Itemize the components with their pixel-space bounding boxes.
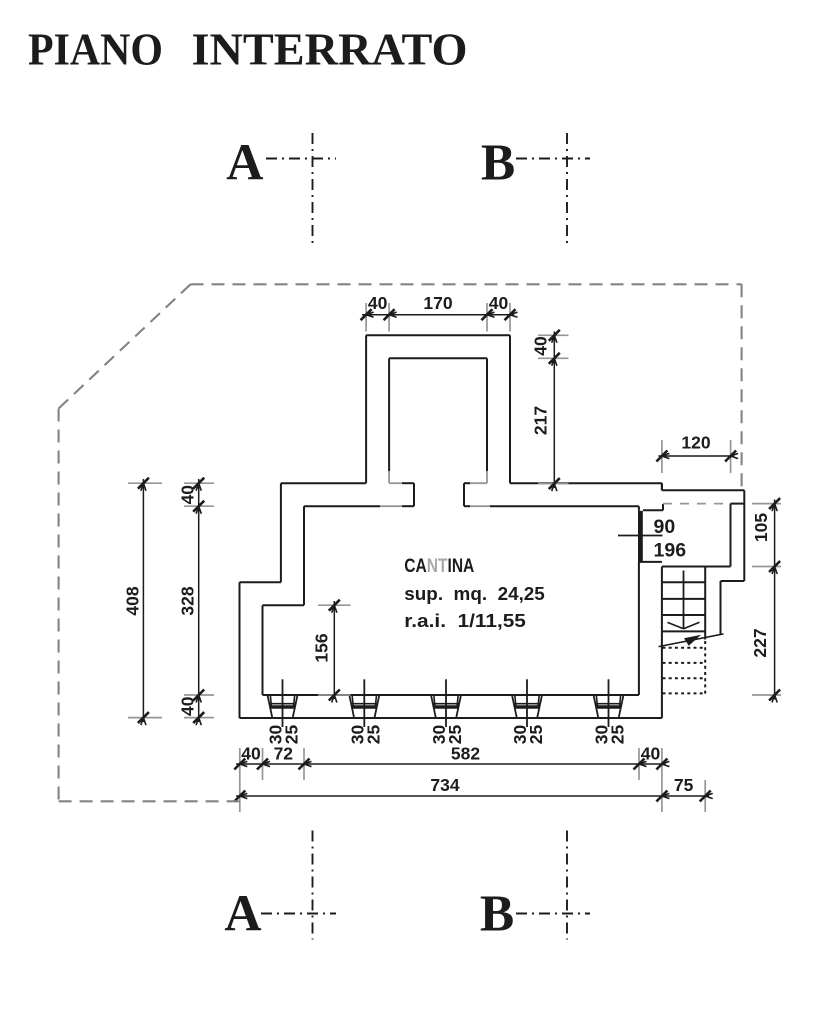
svg-text:CANTINA: CANTINA — [404, 556, 474, 577]
svg-text:217: 217 — [531, 406, 551, 435]
svg-text:170: 170 — [423, 293, 452, 313]
svg-text:25: 25 — [282, 725, 302, 745]
svg-text:734: 734 — [430, 775, 459, 795]
svg-text:105: 105 — [751, 513, 771, 542]
svg-text:120: 120 — [681, 433, 710, 453]
svg-text:A: A — [226, 135, 263, 192]
svg-text:40: 40 — [641, 744, 661, 764]
svg-text:582: 582 — [451, 744, 480, 764]
svg-text:90: 90 — [654, 516, 676, 538]
svg-text:PIANO: PIANO — [28, 24, 163, 75]
svg-text:75: 75 — [674, 775, 694, 795]
svg-text:40: 40 — [178, 485, 198, 505]
svg-text:B: B — [480, 886, 514, 943]
svg-text:B: B — [481, 135, 515, 192]
svg-text:156: 156 — [312, 633, 332, 662]
svg-text:r.a.i. 1/11,55: r.a.i. 1/11,55 — [404, 610, 526, 631]
svg-text:40: 40 — [368, 293, 388, 313]
svg-text:25: 25 — [608, 725, 628, 745]
svg-text:227: 227 — [750, 628, 770, 657]
svg-text:40: 40 — [531, 336, 551, 356]
svg-text:A: A — [224, 886, 261, 943]
svg-text:40: 40 — [178, 696, 198, 716]
svg-text:40: 40 — [241, 744, 261, 764]
svg-text:INTERRATO: INTERRATO — [192, 24, 468, 75]
svg-text:196: 196 — [654, 540, 687, 562]
svg-text:40: 40 — [489, 293, 509, 313]
svg-text:25: 25 — [445, 725, 465, 745]
svg-text:72: 72 — [274, 744, 294, 764]
svg-text:sup. mq. 24,25: sup. mq. 24,25 — [404, 583, 545, 604]
svg-text:408: 408 — [123, 586, 143, 615]
svg-text:25: 25 — [526, 725, 546, 745]
svg-text:328: 328 — [178, 586, 198, 615]
svg-text:25: 25 — [364, 725, 384, 745]
